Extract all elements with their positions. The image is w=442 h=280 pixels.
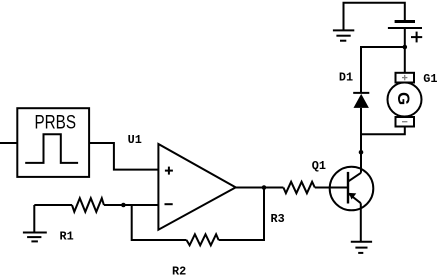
svg-text:G: G <box>394 92 413 105</box>
wire motor return to collector branch <box>361 127 405 135</box>
transistor Q1 <box>330 152 374 241</box>
node collector junction <box>359 150 364 155</box>
wire battery negative to top ground <box>344 3 405 30</box>
svg-text:U1: U1 <box>128 133 142 147</box>
node inverting input junction <box>121 203 126 208</box>
resistor R3 <box>283 182 314 193</box>
op-amp U1 <box>158 144 235 230</box>
ground (bottom, Q1 emitter) <box>351 242 372 253</box>
svg-text:PRBS: PRBS <box>35 112 77 134</box>
wire feedback left leg <box>132 205 187 240</box>
svg-text:D1: D1 <box>339 70 353 84</box>
node battery junction <box>403 45 408 50</box>
node output junction <box>262 185 267 190</box>
ground (left, at R1) <box>23 205 47 241</box>
battery polarity + <box>411 32 422 43</box>
motor G1 <box>388 73 422 127</box>
wire feedback right leg <box>219 188 264 241</box>
svg-text:R2: R2 <box>172 265 186 279</box>
wire R3 to Q1 base <box>315 187 347 189</box>
svg-text:Q1: Q1 <box>312 159 326 173</box>
resistor R2 <box>187 234 219 245</box>
svg-text:R3: R3 <box>271 212 285 226</box>
wire PRBS input stub <box>0 142 18 144</box>
battery V2 <box>388 22 422 29</box>
svg-text:G1: G1 <box>423 72 437 86</box>
wire collector to diode branch <box>360 108 362 152</box>
resistor R1 <box>72 198 104 212</box>
svg-text:R1: R1 <box>60 230 74 244</box>
wire battery positive to motor <box>404 28 406 73</box>
wire PRBS output to op-amp noninverting input <box>89 143 158 170</box>
ground (top, battery negative) <box>333 30 354 40</box>
wire ground to R1 <box>34 204 72 206</box>
wire op-amp output <box>236 187 284 189</box>
PRBS source V1 <box>17 108 89 177</box>
diode D1 <box>353 93 369 108</box>
wire R1 to inverting input <box>104 204 158 206</box>
wire D1 cathode to supply rail <box>361 47 405 93</box>
